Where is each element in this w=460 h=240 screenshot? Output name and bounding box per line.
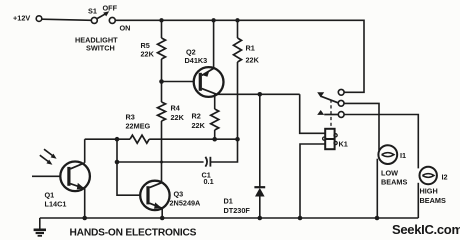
- relay contact A: [338, 89, 344, 95]
- svg-text:HANDS-ON ELECTRONICS: HANDS-ON ELECTRONICS: [70, 227, 197, 238]
- svg-text:22K: 22K: [246, 56, 260, 65]
- relay coil K1: [323, 129, 338, 149]
- wire Q2 base: [162, 81, 194, 83]
- svg-text:+12V: +12V: [13, 14, 30, 23]
- light arrow 2: [40, 155, 53, 165]
- svg-text:Q1: Q1: [45, 191, 55, 200]
- svg-text:SWITCH: SWITCH: [86, 44, 115, 53]
- transistor Q2: [194, 67, 224, 97]
- wire Q3 base branch: [117, 139, 140, 195]
- svg-text:OFF: OFF: [103, 4, 118, 13]
- svg-text:HIGH: HIGH: [420, 186, 438, 195]
- node rail-Q2 junction: [211, 18, 215, 22]
- relay contact C: [338, 112, 344, 118]
- node Q3 emitter-rail junction: [160, 216, 165, 221]
- svg-text:R3: R3: [126, 113, 135, 122]
- node Q1 emitter-rail junction: [82, 216, 87, 221]
- svg-text:BEAMS: BEAMS: [420, 196, 446, 205]
- node +12V terminal: [36, 16, 42, 22]
- svg-text:K1: K1: [339, 140, 348, 149]
- svg-text:S1: S1: [88, 7, 97, 16]
- svg-text:Q3: Q3: [174, 190, 184, 199]
- node R4/Q3 collector crossing: [160, 161, 163, 164]
- wire Q1 base stub: [32, 175, 60, 177]
- lamp I1: [378, 145, 397, 164]
- relay contact B: [338, 100, 344, 106]
- svg-text:ON: ON: [120, 24, 131, 33]
- svg-text:D41K3: D41K3: [185, 56, 208, 65]
- svg-text:BEAMS: BEAMS: [381, 178, 407, 187]
- wire Q1 collector up to node-A: [84, 139, 86, 163]
- switch S1 pole: [91, 17, 97, 23]
- svg-text:R1: R1: [246, 44, 255, 53]
- switch S1 ON contact: [109, 17, 115, 23]
- relay armature 1: [317, 92, 338, 103]
- node Q3 base branch junction: [115, 137, 120, 142]
- wire coil bottom to ground: [300, 144, 325, 218]
- svg-text:I1: I1: [400, 151, 406, 160]
- wire top rail from switch to relay contact A: [115, 20, 364, 92]
- wire node-A run with R3: [85, 138, 130, 140]
- resistor R5: [158, 20, 166, 81]
- wire coil top feed: [300, 94, 325, 133]
- wire C1 right up to node: [210, 139, 237, 162]
- node Q2 base junction: [159, 79, 164, 84]
- resistor R3: [130, 135, 149, 143]
- svg-text:LOW: LOW: [381, 168, 398, 177]
- capacitor C1: [205, 157, 210, 167]
- resistor R2: [211, 94, 219, 139]
- wire Q2 emitter to rail: [213, 20, 215, 68]
- svg-text:D1: D1: [224, 197, 233, 206]
- node rail-R5 junction: [159, 18, 163, 22]
- wire lamp I2 to ground rail: [417, 183, 419, 218]
- node D1 bottom-rail junction: [258, 216, 263, 221]
- wire Q3 emitter to ground rail: [161, 208, 163, 218]
- node C1 wire junction: [115, 160, 120, 165]
- node rail-R1 junction: [235, 18, 239, 22]
- node R2 bottom junction: [212, 137, 217, 142]
- svg-text:2N5249A: 2N5249A: [170, 199, 202, 208]
- wire contact C to lamp I2: [344, 115, 418, 169]
- switch S1 blade: [97, 11, 109, 18]
- wire Q2 collector run: [216, 93, 300, 95]
- svg-text:22K: 22K: [192, 121, 206, 130]
- wire contact B to lamp I1: [344, 103, 379, 150]
- wire Q1 emitter to ground rail: [84, 189, 86, 219]
- svg-text:R4: R4: [171, 104, 181, 113]
- svg-text:0.1: 0.1: [204, 177, 214, 186]
- svg-text:L14C1: L14C1: [45, 200, 67, 209]
- relay armature 2: [317, 110, 338, 115]
- ground symbol: [34, 218, 46, 236]
- light arrow 1: [44, 149, 57, 159]
- node K1 coil-rail junction: [298, 216, 303, 221]
- node lamp I1-rail junction: [375, 216, 380, 221]
- svg-text:SeekIC.com: SeekIC.com: [392, 222, 460, 237]
- diode D1: [254, 94, 265, 218]
- svg-text:DT230F: DT230F: [224, 206, 251, 215]
- node R1 bottom junction: [235, 137, 240, 142]
- mechanical link dashed: [330, 100, 332, 129]
- svg-text:I2: I2: [442, 173, 448, 182]
- resistor R1: [234, 20, 242, 139]
- transistor Q3: [140, 181, 169, 210]
- svg-text:22K: 22K: [141, 50, 155, 59]
- svg-text:22K: 22K: [171, 113, 185, 122]
- transistor Q1: [60, 162, 90, 192]
- wire C1 left: [117, 161, 204, 163]
- ground rail: [40, 217, 419, 219]
- wire +12V to switch: [42, 19, 91, 20]
- node D1 top junction: [258, 92, 263, 97]
- svg-text:R2: R2: [192, 112, 201, 121]
- svg-text:22MEG: 22MEG: [126, 122, 151, 131]
- wire R3 right to node: [149, 138, 237, 140]
- wire lamp I1 to ground rail: [376, 159, 378, 218]
- lamp I2: [420, 167, 437, 184]
- resistor R4: [158, 82, 166, 183]
